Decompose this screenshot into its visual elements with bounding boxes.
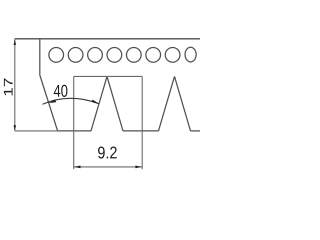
dimension 9.2 right arrow — [135, 166, 141, 169]
belt left edge — [39, 39, 41, 75]
dimension 17 label — [4, 79, 13, 96]
cord circle 6 — [146, 48, 161, 63]
cord circle 7 — [165, 48, 180, 63]
cord circle 4 — [107, 48, 122, 63]
dimension 17 line — [14, 39, 16, 131]
belt top line — [15, 38, 200, 40]
groove 2 left flank — [159, 76, 175, 130]
dimension 9.2 left arrow — [74, 166, 80, 169]
groove 1 left flank — [91, 76, 107, 130]
belt left flank — [40, 75, 58, 131]
groove 2 right flank — [175, 76, 191, 130]
angle 40 arc — [43, 98, 99, 104]
cord circle 2 — [68, 48, 83, 63]
pitch connector line — [74, 75, 143, 77]
angle 40 label — [54, 85, 68, 97]
dimension 9.2 label — [98, 147, 117, 159]
angle 40 right arrow — [92, 100, 99, 104]
dimension 17 top arrow — [14, 40, 16, 45]
angle 40 left arrow — [49, 100, 57, 104]
dimension 17 bottom extension line — [15, 130, 58, 132]
rib 1 flat tip — [58, 130, 91, 132]
dimension 9.2 line — [74, 166, 143, 168]
cord circle 1 — [49, 48, 64, 63]
cord circle 5 — [126, 48, 141, 63]
groove 1 right flank — [107, 76, 123, 130]
dimension 17 bottom arrow — [14, 125, 16, 130]
rib 2 flat tip — [123, 130, 159, 132]
cord circle 3 — [88, 48, 103, 63]
dimension 9.2 right extension line — [141, 76, 143, 169]
dimension 9.2 left extension line — [73, 76, 75, 169]
rib 3 flat tip — [191, 130, 201, 132]
cord circle 8 — [185, 47, 196, 62]
